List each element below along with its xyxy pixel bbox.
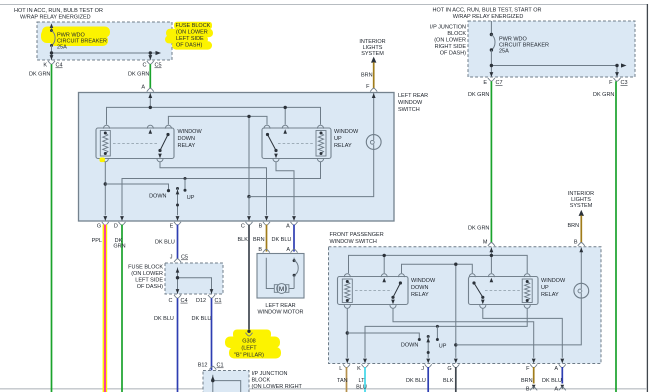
relay contact (FPWS down relay) xyxy=(391,281,402,299)
svg-text:RELAY: RELAY xyxy=(411,292,429,298)
svg-text:A: A xyxy=(554,387,558,392)
relay pin arcs bottom (LRWS up relay) xyxy=(273,158,324,161)
arrow into motor pin B (bottom edge) xyxy=(532,385,536,390)
svg-text:LT: LT xyxy=(358,378,365,384)
label connector C5 xyxy=(155,63,162,69)
svg-text:DOWN: DOWN xyxy=(149,194,166,200)
wire: down switch feed (FPWS) xyxy=(347,333,419,338)
highlight over G308 xyxy=(225,330,281,359)
svg-text:B: B xyxy=(574,240,578,246)
text DOWN (LRWS) xyxy=(149,194,166,200)
label pin B12 xyxy=(198,363,208,369)
arrow contact to pin (FPWS up relay) xyxy=(481,300,485,305)
svg-text:K: K xyxy=(43,63,47,69)
svg-text:(ON LOWER: (ON LOWER xyxy=(434,38,466,44)
relay contact (LRWS down relay) xyxy=(158,133,169,152)
wire DK BLU from pin J xyxy=(427,367,429,392)
junction in mid fuse block xyxy=(176,276,179,279)
wire DK BLU from C1 to junction block xyxy=(211,298,213,370)
relay pin arcs bottom (LRWS down relay) xyxy=(102,158,163,161)
label motor pin B xyxy=(258,247,262,253)
svg-text:UP: UP xyxy=(187,195,195,201)
svg-text:C3: C3 xyxy=(621,80,628,86)
junction bus at E xyxy=(490,64,493,67)
text G308 (LEFT B PILLAR) xyxy=(234,339,264,359)
svg-text:C5: C5 xyxy=(181,255,188,261)
pin G connector (FPWS bottom) xyxy=(447,364,459,372)
svg-text:C: C xyxy=(241,224,245,230)
arrow into pin C4 xyxy=(176,289,180,294)
arrow into pin K xyxy=(50,55,54,60)
wire DK GRN pin F (runs to bottom) xyxy=(615,81,617,392)
svg-text:TAN: TAN xyxy=(337,378,348,384)
svg-text:W/RAP RELAY ENERGIZED: W/RAP RELAY ENERGIZED xyxy=(453,14,524,20)
wire inside bottom junction block xyxy=(213,375,241,392)
pin A connector (bottom edge) xyxy=(554,387,565,392)
label DK GRN (pin E) xyxy=(468,92,489,98)
pin L connector (FPWS bottom) xyxy=(339,364,350,372)
wire pin F to lamp xyxy=(373,93,375,135)
svg-text:LEFT SIDE: LEFT SIDE xyxy=(176,36,204,42)
label DK BLU (pin A) xyxy=(272,237,292,243)
wire: down switch feed xyxy=(105,184,168,189)
label pin M xyxy=(483,240,488,246)
left rear window switch box xyxy=(79,93,395,222)
text FUSE BLOCK (ON LOWER LEFT SIDE OF DASH) xyxy=(176,23,211,49)
svg-text:BRN: BRN xyxy=(521,378,533,384)
mech link (LRWS up relay) xyxy=(278,143,314,145)
wire: supply bus inside LRWS xyxy=(107,93,321,125)
node up switch contact (FPWS) xyxy=(436,325,439,341)
junction bus at down relay (FPWS) xyxy=(383,254,386,257)
junction on bus at A xyxy=(149,106,152,109)
wire: breaker output bus (right block) xyxy=(491,66,617,78)
svg-text:C7: C7 xyxy=(496,80,503,86)
arrow into pin G xyxy=(103,216,107,221)
text LEFT REAR WINDOW MOTOR xyxy=(257,303,303,316)
svg-text:LEFT REAR: LEFT REAR xyxy=(265,303,295,309)
svg-text:B: B xyxy=(526,387,530,392)
text I/P JUNCTION BLOCK (bottom) xyxy=(252,371,303,390)
label BRN (pin F FPWS) xyxy=(521,378,533,384)
arrow into pin B xyxy=(265,216,269,221)
svg-text:DOWN: DOWN xyxy=(401,343,418,349)
wire DK BLU from pin A (FPWS) xyxy=(561,367,563,384)
svg-text:LEFT SIDE: LEFT SIDE xyxy=(135,277,163,283)
text FUSE BLOCK (mid) xyxy=(128,264,163,290)
wire: down-relay contact to pin B xyxy=(160,162,267,216)
arrow: bus continuation right (right block) xyxy=(621,63,627,67)
arrow from pin J xyxy=(176,268,180,273)
pin E connector (LRWS bottom) xyxy=(170,222,181,230)
svg-text:C4: C4 xyxy=(56,63,63,69)
svg-text:DOWN: DOWN xyxy=(411,285,428,291)
svg-text:HOT IN ACC, RUN, BULB TEST OR: HOT IN ACC, RUN, BULB TEST OR xyxy=(14,8,103,14)
label pin A (top) xyxy=(141,85,145,91)
svg-text:WINDOW MOTOR: WINDOW MOTOR xyxy=(257,309,303,315)
wire LT BLU from pin K xyxy=(364,367,366,392)
pin A connector (FPWS bottom) xyxy=(554,364,565,372)
label connector C5 (mid) xyxy=(181,255,188,261)
label BRN (pin B) xyxy=(253,237,265,243)
label BLK (pin G) xyxy=(443,378,454,384)
svg-text:RIGHT SIDE: RIGHT SIDE xyxy=(435,44,467,50)
fuse block (top left, dashed) xyxy=(37,22,172,60)
junction coil/down-switch xyxy=(104,182,107,185)
junction: breaker bus at C xyxy=(149,51,152,54)
arrow into pin C1 xyxy=(210,289,214,294)
svg-text:BRN: BRN xyxy=(361,73,373,79)
svg-text:G: G xyxy=(97,224,101,230)
wire: breaker output bus (left block) xyxy=(52,53,157,60)
window up relay box (LRWS) xyxy=(262,128,331,159)
motor pin connectors xyxy=(263,249,298,252)
svg-text:J: J xyxy=(170,255,173,261)
svg-text:CIRCUIT BREAKER: CIRCUIT BREAKER xyxy=(57,39,107,45)
label DK GRN (pin C) xyxy=(128,72,149,78)
pin F connector (top) xyxy=(370,88,377,91)
svg-text:25A: 25A xyxy=(499,49,509,55)
svg-text:DK GRN: DK GRN xyxy=(468,92,489,98)
svg-text:A: A xyxy=(286,247,290,253)
svg-text:UP: UP xyxy=(541,285,549,291)
wire TAN from pin L xyxy=(346,367,348,392)
svg-text:C5: C5 xyxy=(155,63,162,69)
text WINDOW UP RELAY (FPWS) xyxy=(541,278,566,298)
wire: up-relay contact to pin A(bottom) xyxy=(276,162,294,216)
svg-text:I/P JUNCTION: I/P JUNCTION xyxy=(252,371,288,377)
wire BRN to pin F xyxy=(373,62,375,88)
label DK BLU (pin J) xyxy=(406,378,426,384)
arrow into pin B (FPWS) xyxy=(579,248,583,253)
svg-text:W/RAP RELAY ENERGIZED: W/RAP RELAY ENERGIZED xyxy=(20,15,91,21)
label pin B (FPWS) xyxy=(574,240,578,246)
junction in bottom block xyxy=(211,379,214,382)
svg-text:WINDOW SWITCH: WINDOW SWITCH xyxy=(330,239,377,245)
I/P junction block (bottom, dashed) xyxy=(203,371,249,392)
front passenger window switch box (dashed) xyxy=(329,247,602,364)
svg-text:BLOCK: BLOCK xyxy=(252,378,271,384)
arrow into pin A xyxy=(148,93,152,98)
svg-text:L: L xyxy=(339,366,342,372)
svg-text:C1: C1 xyxy=(215,298,222,304)
label LEFT REAR WINDOW SWITCH xyxy=(398,93,428,113)
motor wiring left xyxy=(266,258,274,289)
arrow into pin L xyxy=(345,359,349,364)
label connector C1 (bottom) xyxy=(217,363,224,369)
label connector C4 xyxy=(56,63,63,69)
highlight over PWR WDO circuit breaker xyxy=(41,27,110,47)
pin B connector (LRWS bottom) xyxy=(259,222,270,230)
wire lamp to tee xyxy=(249,149,374,196)
svg-text:LEFT REAR: LEFT REAR xyxy=(398,93,428,99)
svg-text:PPL: PPL xyxy=(92,238,102,244)
relay contact (LRWS up relay) xyxy=(266,133,278,152)
svg-text:WINDOW: WINDOW xyxy=(178,129,203,135)
label DK BLU (pin A FPWS) xyxy=(542,378,562,384)
label DK GRN (pin K) xyxy=(29,72,50,78)
pin C connector (LRWS bottom) xyxy=(241,222,253,230)
pin K connector xyxy=(48,61,55,64)
pin J connector xyxy=(174,259,181,262)
svg-text:(ON LOWER: (ON LOWER xyxy=(176,30,208,36)
svg-text:M: M xyxy=(483,240,488,246)
arrow into pin F (FPWS) xyxy=(532,359,536,364)
label pin F (top) xyxy=(366,84,370,90)
svg-text:WINDOW: WINDOW xyxy=(334,129,359,135)
circuit breaker PWR WDO 25A (right) xyxy=(490,21,495,77)
svg-text:A: A xyxy=(141,85,145,91)
label DK BLU (C1) xyxy=(192,316,212,322)
wire to pin C xyxy=(248,197,250,216)
wire: down-relay coil to pin L xyxy=(346,308,348,358)
label DK GRN (pin D) xyxy=(113,238,125,249)
text WINDOW UP RELAY (LRWS) xyxy=(334,129,359,149)
svg-text:BLOCK: BLOCK xyxy=(447,31,466,37)
svg-text:K: K xyxy=(357,366,361,372)
arrow into pin F (right block) xyxy=(615,72,619,77)
arrow into pin E xyxy=(176,216,180,221)
pin M connector (FPWS top) xyxy=(488,243,495,246)
relay pin arcs bottom (FPWS down relay) xyxy=(344,305,396,308)
wire lamp to tee (FPWS) xyxy=(456,298,582,345)
pin B connector (FPWS top) xyxy=(578,243,585,246)
node INTERIOR LIGHTS SYSTEM (right) xyxy=(568,191,594,209)
svg-text:SYSTEM: SYSTEM xyxy=(570,203,593,209)
relay pin arcs bottom (FPWS up relay) xyxy=(480,305,531,308)
wire PPL from pin G xyxy=(104,225,106,392)
pin F connector (right block) xyxy=(614,78,621,81)
wire DK BLU from C4 xyxy=(177,298,179,392)
arrow normally-open throw (FPWS down relay) xyxy=(382,278,386,283)
label DK GRN (pin F right) xyxy=(593,92,614,98)
stray highlight mark at coil pin xyxy=(100,158,106,163)
svg-text:RELAY: RELAY xyxy=(334,143,352,149)
text PWR WDO CIRCUIT BREAKER 25A (left) xyxy=(57,33,107,51)
svg-text:OF DASH): OF DASH) xyxy=(176,43,202,49)
motor wiring right xyxy=(289,258,298,289)
wire: relay contact tie (FPWS) xyxy=(402,264,473,358)
relay pin arcs top (FPWS up relay) xyxy=(469,274,530,277)
arrow contact to pin (FPWS down relay) xyxy=(391,300,395,305)
junction at C feed xyxy=(247,115,250,118)
junction: breaker bus at K xyxy=(50,51,53,54)
mech link (FPWS up relay) xyxy=(485,290,520,292)
text UP (FPWS) xyxy=(439,344,447,350)
wire: up-relay contact to pin A (FPWS) xyxy=(483,308,563,358)
svg-text:DK GRN: DK GRN xyxy=(593,92,614,98)
svg-text:G: G xyxy=(447,366,451,372)
label PPL xyxy=(92,238,102,244)
circuit breaker PWR WDO 25A (left) xyxy=(50,23,55,60)
pin C4 connector xyxy=(174,295,181,298)
arrow into pin C xyxy=(148,55,152,60)
junction coil/down-switch (FPWS) xyxy=(346,331,349,334)
label FRONT PASSENGER WINDOW SWITCH xyxy=(330,232,384,245)
arrow: bus continuation right xyxy=(156,51,162,55)
junction at lamp tee (FPWS) xyxy=(454,343,457,346)
svg-text:BLU: BLU xyxy=(356,385,367,391)
wire: up-relay coil to pin K xyxy=(365,308,527,358)
arrow to interior lights (left) xyxy=(371,57,376,63)
svg-text:A: A xyxy=(554,366,558,372)
relay pin arcs top (LRWS down relay) xyxy=(103,125,171,128)
svg-text:B12: B12 xyxy=(198,363,208,369)
svg-text:B: B xyxy=(259,224,263,230)
label BLK (pin C) xyxy=(238,237,249,243)
arrow into pin J xyxy=(426,359,430,364)
node INTERIOR LIGHTS SYSTEM (left) xyxy=(359,39,385,57)
junction bus at F xyxy=(615,64,618,67)
svg-text:25A: 25A xyxy=(57,45,67,51)
relay contact (FPWS up relay) xyxy=(472,281,484,299)
indicator lamp (LRWS) xyxy=(366,135,381,150)
svg-text:M: M xyxy=(279,286,284,293)
svg-text:RELAY: RELAY xyxy=(178,143,196,149)
svg-text:WINDOW: WINDOW xyxy=(398,100,423,106)
wire inside mid fuse block xyxy=(178,268,212,294)
svg-text:FUSE BLOCK: FUSE BLOCK xyxy=(176,23,211,29)
relay coil (LRWS down relay) xyxy=(100,131,110,157)
label BRN (pin B FPWS) xyxy=(568,223,580,229)
svg-text:SWITCH: SWITCH xyxy=(398,107,420,113)
header HOT IN ACC (right) xyxy=(433,8,542,21)
relay coil (FPWS up relay) xyxy=(522,279,532,303)
svg-text:WINDOW: WINDOW xyxy=(541,278,566,284)
arrow normally-open throw (FPWS up relay) xyxy=(490,278,494,283)
svg-text:UP: UP xyxy=(439,344,447,350)
arrow on switch common (FPWS) xyxy=(426,338,430,343)
down/up switch common (FPWS) xyxy=(427,335,430,358)
svg-text:DK BLU: DK BLU xyxy=(154,316,174,322)
pin F connector (FPWS bottom) xyxy=(526,364,537,372)
svg-text:E: E xyxy=(483,80,487,86)
svg-text:DK BLU: DK BLU xyxy=(542,378,562,384)
svg-text:BLK: BLK xyxy=(238,237,249,243)
svg-text:RELAY: RELAY xyxy=(541,292,559,298)
arrow into pin M xyxy=(490,248,494,253)
text PWR WDO CIRCUIT BREAKER 25A (right) xyxy=(499,37,549,55)
arrow on switch common xyxy=(176,190,180,195)
relay coil (LRWS up relay) xyxy=(316,131,326,157)
ground G308 node xyxy=(246,330,253,337)
pin D connector (LRWS bottom) xyxy=(114,222,126,230)
svg-text:J: J xyxy=(421,366,424,372)
highlight over FUSE BLOCK label xyxy=(165,22,213,50)
relay coil (FPWS down relay) xyxy=(342,279,352,303)
svg-text:D12: D12 xyxy=(196,298,206,304)
label TAN xyxy=(337,378,348,384)
svg-text:OF DASH): OF DASH) xyxy=(137,284,163,290)
svg-text:DK BLU: DK BLU xyxy=(155,240,175,246)
wire DK BLU from pin E xyxy=(177,225,179,259)
wire: supply bus inside FPWS xyxy=(349,248,528,274)
label pin J xyxy=(170,255,173,261)
node down switch contact xyxy=(167,189,170,192)
down/up switch common (LRWS) xyxy=(176,187,179,215)
wire: down-relay contact to pin F (FPWS) xyxy=(393,308,534,358)
label DK BLU (pin E) xyxy=(155,240,175,246)
text WINDOW DOWN RELAY (LRWS) xyxy=(178,129,203,149)
svg-text:(LEFT: (LEFT xyxy=(241,346,257,352)
pin G connector (LRWS bottom) xyxy=(97,222,109,230)
labels mid fuse block pins xyxy=(169,298,222,304)
pin A connector (top) xyxy=(147,88,154,91)
arrow normally-open throw (LRWS down relay) xyxy=(149,129,153,134)
svg-text:C: C xyxy=(143,63,147,69)
pin B connector (bottom edge) xyxy=(526,387,537,392)
wire: up-relay coil to pin D xyxy=(122,162,321,216)
junction at G feed xyxy=(454,263,457,266)
svg-text:BRN: BRN xyxy=(568,223,580,229)
svg-text:DK GRN: DK GRN xyxy=(128,72,149,78)
wire BRN to pin B (FPWS) xyxy=(580,215,582,242)
svg-text:E: E xyxy=(170,224,174,230)
header HOT IN ACC (left) xyxy=(14,8,103,21)
wire pin B to lamp (FPWS) xyxy=(580,248,582,284)
arrow to interior lights (right) xyxy=(579,210,584,216)
arrow into pin C xyxy=(247,216,251,221)
highlight on PPL wire xyxy=(103,225,108,392)
svg-text:D: D xyxy=(114,224,118,230)
arrow into pin F xyxy=(372,93,376,98)
svg-text:"B" PILLAR): "B" PILLAR) xyxy=(234,353,264,359)
label DK BLU (C4) xyxy=(154,316,174,322)
arrow into pin A (FPWS) xyxy=(560,359,564,364)
svg-text:WINDOW: WINDOW xyxy=(411,278,436,284)
pin A connector (LRWS bottom) xyxy=(286,222,297,230)
wire: down-relay coil to pin G xyxy=(104,162,106,216)
arrow into motor pin A (bottom edge) xyxy=(561,385,565,390)
motor M1 symbol xyxy=(274,284,289,294)
pin K connector (FPWS bottom) xyxy=(357,364,368,372)
junction bus at M xyxy=(490,254,493,257)
wire: relay contact tie (LRWS) xyxy=(168,116,267,196)
svg-text:G308: G308 xyxy=(242,339,255,345)
text DOWN (FPWS) xyxy=(401,343,418,349)
node up switch contact xyxy=(184,177,187,192)
indicator lamp (FPWS) xyxy=(574,283,589,298)
svg-text:I/P JUNCTION: I/P JUNCTION xyxy=(430,25,466,31)
svg-text:BLK: BLK xyxy=(443,378,454,384)
pin C1 connector xyxy=(208,295,215,298)
mech link (FPWS down relay) xyxy=(355,290,392,292)
window down relay box (FPWS) xyxy=(338,277,409,305)
svg-text:UP: UP xyxy=(334,136,342,142)
junction on bus at up-relay xyxy=(284,106,287,109)
wire BRN from pin F (FPWS) xyxy=(533,367,535,384)
svg-text:CIRCUIT BREAKER: CIRCUIT BREAKER xyxy=(499,43,549,49)
svg-text:DK GRN: DK GRN xyxy=(468,226,489,232)
window up relay box (FPWS) xyxy=(469,277,539,305)
wire DK GRN from pin D xyxy=(121,225,123,392)
label BRN (pin F) xyxy=(361,73,373,79)
text UP (LRWS) xyxy=(187,195,195,201)
pin J connector (FPWS bottom) xyxy=(421,364,431,372)
wire DK GRN from pin K (runs to bottom) xyxy=(51,64,53,392)
wire DK GRN pin E to FPWS pin M xyxy=(490,81,492,242)
node down switch contact (FPWS) xyxy=(418,338,421,341)
left rear window motor box xyxy=(257,254,304,299)
wire BLK from pin C xyxy=(248,225,250,331)
svg-text:B: B xyxy=(258,247,262,253)
svg-text:C4: C4 xyxy=(181,298,188,304)
junction at lamp tee xyxy=(247,195,250,198)
arrow into pin D xyxy=(120,216,124,221)
svg-text:C: C xyxy=(169,298,173,304)
I/P junction block (top right, dashed) xyxy=(468,21,635,77)
label LT BLU xyxy=(356,378,367,391)
